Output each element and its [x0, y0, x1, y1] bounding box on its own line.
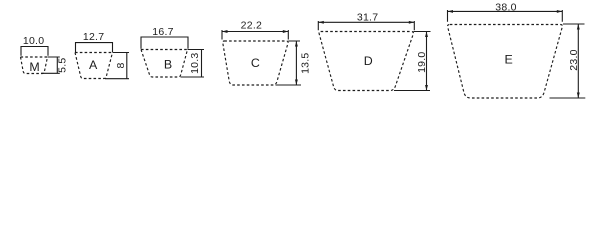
dim 19.0 text: [416, 51, 428, 72]
dim 38.0 text: [495, 1, 516, 13]
label A: [89, 58, 98, 72]
dim 38.0 left arrow: [448, 10, 454, 13]
label B: [164, 58, 172, 72]
belt section D trapezoid: [319, 32, 413, 91]
belt section C trapezoid: [223, 41, 288, 85]
svg-text:10.3: 10.3: [189, 52, 201, 73]
svg-text:16.7: 16.7: [152, 26, 173, 38]
dim 19.0 down arrow: [425, 85, 428, 91]
svg-text:8: 8: [115, 62, 127, 68]
dim 12.7 bracket line: [76, 43, 113, 52]
dim 16.7 text: [152, 26, 173, 38]
dim 13.5 down arrow: [295, 80, 298, 86]
dim 13.5 text: [299, 52, 311, 73]
dim 12.7 text: [83, 31, 104, 43]
label C: [251, 56, 260, 70]
dim 19.0 up arrow: [425, 32, 428, 38]
svg-text:23.0: 23.0: [568, 49, 580, 70]
dim 23.0 text: [568, 49, 580, 70]
belt section M trapezoid: [21, 57, 48, 74]
dim 10.0 text: [23, 35, 44, 47]
dim 16.7 bracket line: [141, 37, 188, 49]
svg-text:E: E: [504, 52, 512, 66]
svg-text:22.2: 22.2: [241, 19, 262, 31]
dim 31.7 right arrow: [409, 21, 415, 24]
dim 31.7 left arrow: [318, 21, 324, 24]
label M: [29, 60, 39, 74]
dim 8 text: [115, 62, 127, 68]
dim 10.3 text: [189, 52, 201, 73]
dim 10.0 bracket line: [21, 47, 48, 56]
dim 13.5 ticks and line: [276, 41, 302, 85]
svg-text:C: C: [251, 56, 260, 70]
svg-text:10.0: 10.0: [23, 35, 44, 47]
svg-text:12.7: 12.7: [83, 31, 104, 43]
svg-text:31.7: 31.7: [357, 11, 378, 23]
dim 31.7 line: [318, 21, 414, 23]
dim 38.0 line: [448, 10, 563, 12]
dim 22.2 extension lines: [222, 30, 288, 40]
dim 19.0 ticks and line: [394, 32, 431, 91]
svg-text:19.0: 19.0: [416, 51, 428, 72]
dim 23.0 up arrow: [577, 24, 580, 30]
dim 38.0 right arrow: [557, 10, 563, 13]
dim 22.2 line: [222, 31, 288, 33]
dim 23.0 ticks and line: [550, 24, 586, 98]
dim 5.5 ticks and line: [41, 57, 60, 73]
svg-text:13.5: 13.5: [299, 52, 311, 73]
dim 5.5 text: [57, 58, 69, 73]
dim 8 ticks and line: [105, 53, 129, 79]
svg-text:B: B: [164, 58, 172, 72]
dim 38.0 extension lines: [448, 10, 563, 22]
label D: [364, 54, 373, 68]
dim 22.2 right arrow: [283, 30, 289, 33]
svg-text:A: A: [89, 58, 98, 72]
belt section B trapezoid: [141, 50, 188, 78]
dim 22.2 left arrow: [222, 30, 228, 33]
dim 22.2 text: [241, 19, 262, 31]
dim 31.7 text: [357, 11, 378, 23]
svg-text:D: D: [364, 54, 373, 68]
svg-text:5.5: 5.5: [57, 58, 69, 73]
dim 23.0 down arrow: [577, 93, 580, 99]
dim 31.7 extension lines: [318, 21, 414, 30]
svg-text:M: M: [29, 60, 39, 74]
belt section A trapezoid: [75, 53, 113, 79]
svg-text:38.0: 38.0: [495, 1, 516, 13]
dim 10.3 ticks and line: [181, 50, 205, 78]
belt section E trapezoid: [448, 25, 563, 99]
dim 13.5 up arrow: [295, 41, 298, 47]
label E: [504, 52, 512, 66]
